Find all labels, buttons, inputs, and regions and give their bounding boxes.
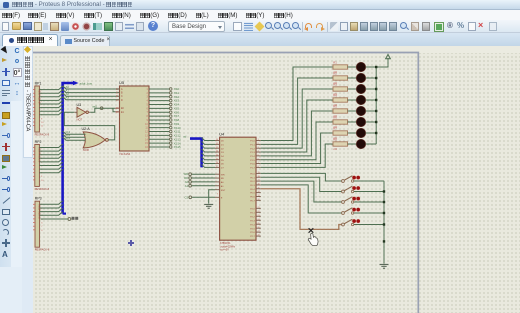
svg-text:23: 23 <box>258 215 260 217</box>
svg-text:9: 9 <box>41 118 43 120</box>
svg-text:7: 7 <box>258 162 259 164</box>
wire bus to U4 <box>202 161 215 164</box>
svg-text:6: 6 <box>41 222 43 224</box>
wire U5 output Y14 <box>149 142 169 144</box>
menu bar <box>0 10 520 20</box>
svg-text:R5: R5 <box>333 104 337 108</box>
wire A3 bus to U5 <box>63 97 120 100</box>
resistor R2 <box>333 71 348 84</box>
node terminal Y6 <box>169 111 172 114</box>
wire <box>40 208 63 211</box>
node terminal Y11 <box>169 130 172 133</box>
node terminal Y15 <box>169 146 172 149</box>
resistor R6 <box>333 115 348 128</box>
svg-text:RESPACK-8: RESPACK-8 <box>35 248 50 252</box>
svg-text:33: 33 <box>216 151 218 153</box>
wire NOR output feedback to U3 input <box>64 112 114 140</box>
junction <box>375 99 377 101</box>
wire switch rail <box>383 181 385 264</box>
svg-text:2: 2 <box>258 143 259 145</box>
wire CS <box>192 196 215 198</box>
wire A1 <box>192 185 216 187</box>
wire <box>366 143 377 145</box>
resistor pack RP2 <box>32 140 50 191</box>
wire RESET to ground <box>209 190 215 204</box>
schematic canvas <box>33 46 520 313</box>
svg-text:RP1: RP1 <box>35 81 42 85</box>
svg-text:5: 5 <box>258 154 259 156</box>
svg-text:P0.2: P0.2 <box>250 181 255 183</box>
wire <box>39 86 62 89</box>
svg-text:36: 36 <box>258 184 260 186</box>
pin E0 <box>115 107 120 109</box>
wire <box>354 212 384 214</box>
svg-text:P1.7: P1.7 <box>250 168 255 170</box>
svg-text:P2.0: P2.0 <box>250 208 255 210</box>
wire <box>366 88 377 90</box>
wire <box>366 99 377 101</box>
led D4 <box>356 95 365 104</box>
wire <box>39 144 62 147</box>
svg-text:RESPACK-8: RESPACK-8 <box>35 132 50 136</box>
svg-text:9: 9 <box>41 176 43 178</box>
junction <box>383 240 385 242</box>
wire <box>39 93 62 96</box>
svg-text:R4: R4 <box>333 93 337 97</box>
wire U5 output Y0 <box>149 88 169 90</box>
svg-text:R1: R1 <box>333 60 337 64</box>
wire <box>366 66 377 68</box>
led D3 <box>356 84 365 93</box>
node terminal <box>189 184 192 187</box>
svg-text:24: 24 <box>258 219 260 221</box>
wire <box>39 111 62 114</box>
svg-text:31: 31 <box>216 143 218 145</box>
svg-text:27: 27 <box>258 231 260 233</box>
node terminal Y9 <box>169 123 172 126</box>
svg-text:P0.7: P0.7 <box>250 200 255 202</box>
wire U5 output Y6 <box>149 111 169 113</box>
svg-text:U2:A: U2:A <box>82 127 91 131</box>
wire <box>366 132 377 134</box>
wire <box>354 191 384 193</box>
node terminal CS <box>189 196 192 199</box>
junction <box>375 77 377 79</box>
wire P0.1 to switch 2 <box>261 177 342 191</box>
svg-text:P1.5: P1.5 <box>250 160 255 162</box>
svg-text:RP3: RP3 <box>35 197 42 201</box>
resistor pack RP1 <box>32 81 50 136</box>
svg-text:P0.4: P0.4 <box>250 189 255 191</box>
wire <box>39 162 62 165</box>
node terminal <box>189 181 192 184</box>
wire U5 output Y3 <box>149 100 169 102</box>
junction <box>375 66 377 68</box>
wire bus to U4 <box>202 145 215 148</box>
wire U5 output Y5 <box>149 107 169 109</box>
junction <box>375 121 377 123</box>
svg-text:R3: R3 <box>333 82 337 86</box>
wire <box>39 101 62 104</box>
switch SW3 <box>342 197 361 204</box>
node terminal Y12 <box>169 134 172 137</box>
wire A1 bus to U5 <box>63 89 120 92</box>
wire <box>39 97 62 100</box>
svg-text:P1.1: P1.1 <box>250 144 255 146</box>
svg-text:wr0: wr0 <box>92 104 97 108</box>
svg-text:NOR: NOR <box>83 148 89 152</box>
wire LED rail <box>375 67 377 144</box>
wire U5 output Y9 <box>149 123 169 125</box>
wire P1.2 to R3 <box>261 89 333 148</box>
wire NOR input 1 <box>63 134 86 137</box>
tab bar <box>0 33 520 46</box>
node terminal Y1 <box>169 92 172 95</box>
svg-text:74LS154: 74LS154 <box>119 152 131 156</box>
resistor R1 <box>333 60 348 73</box>
resistor R8 <box>333 137 348 150</box>
wire U5 output Y12 <box>149 134 169 136</box>
svg-text:19: 19 <box>116 111 119 114</box>
wire <box>354 180 384 182</box>
svg-text:220: 220 <box>333 149 338 151</box>
svg-text:7: 7 <box>41 226 43 228</box>
svg-text:U4: U4 <box>219 131 225 136</box>
wire <box>39 166 62 169</box>
wire P0.0 to switch 1 <box>261 173 342 181</box>
svg-text:10: 10 <box>41 122 44 124</box>
svg-text:R2: R2 <box>333 71 337 75</box>
svg-text:RP2: RP2 <box>35 140 42 144</box>
svg-text:1: 1 <box>258 139 259 141</box>
wire P1.3 to R4 <box>261 100 333 152</box>
led D7 <box>356 128 365 137</box>
svg-text:WR: WR <box>221 174 225 176</box>
switch SW2 <box>342 186 361 193</box>
wire <box>40 212 63 215</box>
junction <box>383 212 385 214</box>
node terminal <box>68 218 71 221</box>
wire bus to U4 <box>202 141 215 144</box>
wire <box>366 77 377 79</box>
switch SW4 <box>342 208 361 215</box>
bus main address bus <box>63 81 79 214</box>
wire <box>354 224 384 226</box>
svg-text:U3: U3 <box>77 103 82 107</box>
svg-text:NOT: NOT <box>77 117 83 121</box>
svg-text:30: 30 <box>216 139 218 141</box>
wire A0 bus to U5 <box>63 86 120 89</box>
svg-text:28: 28 <box>258 235 260 237</box>
svg-text:6: 6 <box>258 158 259 160</box>
gate U2:A NOR <box>82 127 109 152</box>
junction <box>383 223 385 225</box>
wire <box>39 90 62 93</box>
wire <box>348 121 357 123</box>
svg-text:R8: R8 <box>333 137 337 141</box>
wire bus to U4 <box>202 153 215 156</box>
svg-text:37: 37 <box>216 166 218 168</box>
ground (switch rail) <box>380 264 389 268</box>
bus U4 data bus <box>190 139 202 168</box>
wire bus to U4 <box>202 149 215 152</box>
svg-text:A15: A15 <box>65 136 70 140</box>
device selector strip <box>22 46 33 313</box>
svg-text:21: 21 <box>258 207 260 209</box>
svg-text:AT89C51: AT89C51 <box>220 241 231 245</box>
svg-text:25: 25 <box>258 223 260 225</box>
svg-text:P2.3: P2.3 <box>250 220 255 222</box>
junction <box>375 110 377 112</box>
ic U4 AT89C51 <box>219 131 256 251</box>
wire U5 output Y11 <box>149 131 169 133</box>
wire P0.3 to switch 4 <box>261 185 342 213</box>
led D8 <box>356 139 365 148</box>
wire <box>348 77 357 79</box>
svg-text:RST: RST <box>221 190 226 192</box>
resistor R5 <box>333 104 348 117</box>
cursor X mark <box>309 228 314 233</box>
svg-text:10: 10 <box>41 180 44 182</box>
svg-text:22: 22 <box>258 211 260 213</box>
svg-text:9: 9 <box>217 194 218 196</box>
junction <box>383 201 385 203</box>
wire <box>39 108 62 111</box>
pin E1 <box>115 111 120 113</box>
svg-text:37: 37 <box>258 180 260 182</box>
switch SW1 <box>342 176 361 183</box>
svg-text:38: 38 <box>258 176 260 178</box>
svg-text:39: 39 <box>258 172 260 174</box>
wire P1.1 to R2 <box>261 78 333 144</box>
wire bus to U4 <box>202 164 215 167</box>
svg-text:8: 8 <box>258 166 259 168</box>
svg-text:3: 3 <box>258 147 259 149</box>
wire <box>366 110 377 112</box>
resistor R4 <box>333 93 348 106</box>
svg-text:R6: R6 <box>333 115 337 119</box>
wire <box>41 218 69 220</box>
svg-text:RESPACK-8: RESPACK-8 <box>35 187 50 191</box>
svg-text:crystal=12MHz: crystal=12MHz <box>220 245 236 248</box>
junction <box>375 132 377 134</box>
svg-text:XS15: XS15 <box>174 145 181 149</box>
svg-text:36: 36 <box>216 162 218 164</box>
wire P1.7 to R8 <box>261 144 333 167</box>
led D6 <box>356 117 365 126</box>
led D5 <box>356 106 365 115</box>
wire P0.2 to switch 3 <box>261 181 342 202</box>
svg-text:32: 32 <box>216 147 218 149</box>
wire <box>39 104 62 107</box>
node terminal Y10 <box>169 126 172 129</box>
svg-text:18: 18 <box>116 107 119 110</box>
svg-text:P0.3: P0.3 <box>250 185 255 187</box>
wire P1.6 to R7 <box>261 133 333 164</box>
svg-text:35: 35 <box>216 158 218 160</box>
svg-text:P1.2: P1.2 <box>250 148 255 150</box>
wire to power <box>376 58 388 67</box>
wire U3 output to U5 E0/E1 <box>90 108 115 112</box>
wire <box>39 151 62 154</box>
led D1 <box>356 62 365 71</box>
wire <box>40 205 63 208</box>
svg-text:P1.6: P1.6 <box>250 164 255 166</box>
wire U5 output Y10 <box>149 127 169 129</box>
svg-text:34: 34 <box>258 191 260 193</box>
junction <box>383 190 385 192</box>
wire <box>348 143 357 145</box>
svg-text:RD: RD <box>221 178 225 180</box>
wire P1.5 to R6 <box>261 122 333 160</box>
node terminal Y2 <box>169 95 172 98</box>
node terminal <box>189 173 192 176</box>
svg-text:26: 26 <box>258 227 260 229</box>
wire U5 output Y1 <box>149 92 169 94</box>
gate U3 NOT <box>74 103 90 121</box>
wire <box>348 132 357 134</box>
svg-text:A3: A3 <box>66 96 70 100</box>
ic U4 pins <box>215 139 261 238</box>
node terminal Y5 <box>169 107 172 110</box>
node terminal Y7 <box>169 115 172 118</box>
wire RD <box>192 177 216 179</box>
svg-text:P2.4: P2.4 <box>250 224 255 226</box>
wire <box>366 121 377 123</box>
wire <box>39 148 62 151</box>
node origin marker <box>128 240 134 246</box>
svg-text:P2.7: P2.7 <box>250 236 255 238</box>
switch SW5 <box>342 219 361 226</box>
svg-text:8: 8 <box>41 230 43 232</box>
svg-text:ad: ad <box>183 135 187 139</box>
svg-text:P2.6: P2.6 <box>250 232 255 234</box>
led D2 <box>356 73 365 82</box>
cursor hand <box>308 233 318 245</box>
sheet border <box>33 53 418 313</box>
svg-text:33: 33 <box>258 195 260 197</box>
svg-text:4: 4 <box>258 151 259 153</box>
svg-text:P2.5: P2.5 <box>250 228 255 230</box>
wire <box>348 99 357 101</box>
svg-text:A1: A1 <box>185 184 189 188</box>
ic U5 74LS154 <box>119 80 149 156</box>
svg-text:P2.2: P2.2 <box>250 216 255 218</box>
svg-text:addr_bus: addr_bus <box>80 81 93 85</box>
svg-text:U5: U5 <box>119 80 125 85</box>
resistor R7 <box>333 126 348 139</box>
node terminal Y3 <box>169 99 172 102</box>
wire <box>348 66 357 68</box>
wire NOR input 2 <box>63 137 86 140</box>
wire U5 output Y7 <box>149 115 169 117</box>
wire U5 output Y2 <box>149 96 169 98</box>
wire <box>39 169 62 172</box>
wire <box>40 201 63 204</box>
svg-text:P1.0: P1.0 <box>250 141 255 143</box>
wire <box>39 159 62 162</box>
svg-text:P1.4: P1.4 <box>250 156 255 158</box>
node terminal <box>189 177 192 180</box>
left tool column <box>0 46 22 313</box>
wire bus to U4 <box>202 138 215 141</box>
svg-text:CS: CS <box>185 195 189 199</box>
svg-text:32: 32 <box>258 199 260 201</box>
wire <box>354 201 384 203</box>
wire U5 output Y4 <box>149 103 169 105</box>
wire <box>39 155 62 158</box>
junction <box>375 88 377 90</box>
wire A2 bus to U5 <box>63 93 120 96</box>
svg-text:35: 35 <box>258 187 260 189</box>
wire bus to U4 <box>202 157 215 160</box>
node terminal Y13 <box>169 138 172 141</box>
svg-text:R7: R7 <box>333 126 337 130</box>
power terminal VCC <box>386 54 391 58</box>
wire P1.0 to R1 <box>261 67 333 141</box>
wire WR <box>192 173 216 175</box>
toolbar <box>0 20 520 33</box>
resistor pack RP3 <box>32 197 50 252</box>
wire A0 <box>192 181 216 183</box>
wire P1.4 to R5 <box>261 111 333 156</box>
wire U5 output Y15 <box>149 146 169 148</box>
node terminal Y0 <box>169 88 172 91</box>
node terminal Y4 <box>169 103 172 106</box>
wire U5 output Y13 <box>149 138 169 140</box>
svg-text:P1.3: P1.3 <box>250 152 255 154</box>
node terminal Y14 <box>169 142 172 145</box>
svg-text:P2.1: P2.1 <box>250 212 255 214</box>
svg-text:P0.1: P0.1 <box>250 177 255 179</box>
svg-text:P0.6: P0.6 <box>250 197 255 199</box>
svg-text:11: 11 <box>41 126 44 128</box>
wire <box>348 88 357 90</box>
svg-text:vcc=+5V: vcc=+5V <box>220 250 229 252</box>
wire P0.4 to switch 5 (being routed) <box>261 189 342 230</box>
svg-text:34: 34 <box>216 154 218 156</box>
node wr0 terminal <box>100 107 103 110</box>
wire U5 output Y8 <box>149 119 169 121</box>
node terminal Y8 <box>169 119 172 122</box>
ground (U4 reset) <box>204 204 213 208</box>
svg-text:P0.0: P0.0 <box>250 174 255 176</box>
wire branch to E1 <box>113 108 115 112</box>
svg-text:P0.5: P0.5 <box>250 193 255 195</box>
resistor R3 <box>333 82 348 95</box>
wire <box>348 110 357 112</box>
wire NOR input 0 <box>63 131 86 134</box>
title bar <box>0 0 520 10</box>
